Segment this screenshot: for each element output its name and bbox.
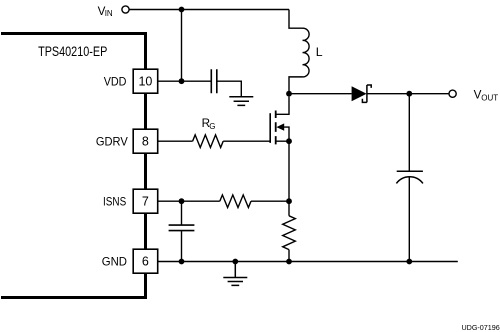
svg-text:8: 8 [142, 135, 149, 149]
pin 8 box GDRV [133, 129, 158, 153]
inductor L [289, 10, 309, 94]
svg-text:GND: GND [102, 254, 128, 268]
wire output cap to GND rail [408, 177, 410, 262]
junction VIN bus [179, 7, 185, 13]
wire GDRV pin to RG [158, 140, 193, 142]
transistor Q1 N-channel MOSFET [270, 97, 289, 145]
svg-text:OUT: OUT [481, 93, 498, 102]
wire RG to gate [223, 140, 270, 142]
junction GND filter cap [179, 259, 185, 265]
junction sense node [286, 198, 292, 204]
wire VOUT to output cap [408, 94, 410, 172]
capacitor C output (polarized) [396, 171, 423, 183]
svg-text:G: G [209, 122, 215, 131]
wire filter resistor to sense node [251, 200, 289, 202]
diode D1 schottky [352, 85, 372, 102]
wire filter cap bottom [181, 231, 183, 262]
junction GND sense resistor [286, 259, 292, 265]
wire top rail VIN to inductor [129, 9, 289, 11]
resistor R sense (vertical) [283, 201, 296, 261]
svg-text:10: 10 [138, 75, 152, 89]
junction GND output cap [406, 259, 412, 265]
wire anode [289, 93, 352, 95]
svg-text:IN: IN [105, 9, 113, 18]
wire bus down to VDD [181, 10, 183, 82]
node VOUT label [474, 88, 499, 102]
node VIN label [98, 5, 113, 18]
op-amp U1 TPS40210-EP outline [1, 32, 146, 299]
node VOUT terminal [449, 90, 456, 97]
junction switch node [286, 91, 292, 97]
wire filter cap top [181, 201, 183, 225]
junction VDD [179, 78, 185, 84]
pin 7 box ISNS [133, 189, 158, 213]
wire VDD pin to capacitor [158, 80, 212, 82]
wire ISNS pin to filter resistor [158, 200, 220, 202]
capacitor C filter [169, 225, 195, 231]
svg-text:7: 7 [142, 195, 149, 209]
junction GND symbol [232, 259, 238, 265]
wire cathode to VOUT [367, 93, 449, 95]
resistor RG label [202, 117, 216, 131]
pin 10 box VDD [133, 69, 158, 93]
svg-text:UDG-07196: UDG-07196 [461, 323, 499, 332]
svg-text:TPS40210-EP: TPS40210-EP [38, 44, 107, 59]
ground (main) [223, 262, 247, 286]
wire capacitor to ground [217, 81, 242, 97]
svg-text:VDD: VDD [104, 74, 127, 88]
ground (VDD bypass) [229, 97, 253, 106]
svg-text:L: L [316, 45, 323, 59]
junction ISNS filter [179, 198, 185, 204]
junction source node [286, 138, 292, 144]
junction VOUT [406, 91, 412, 97]
capacitor C1 VDD bypass [211, 69, 217, 93]
svg-text:GDRV: GDRV [96, 134, 128, 148]
pin 6 box GND [133, 249, 158, 273]
wire GND rail [158, 261, 458, 263]
svg-text:6: 6 [142, 255, 149, 269]
wire source down to sense node [288, 141, 290, 201]
resistor RG [193, 135, 224, 148]
resistor R filter [220, 195, 251, 208]
node VIN terminal [122, 6, 129, 13]
svg-text:ISNS: ISNS [103, 194, 126, 208]
